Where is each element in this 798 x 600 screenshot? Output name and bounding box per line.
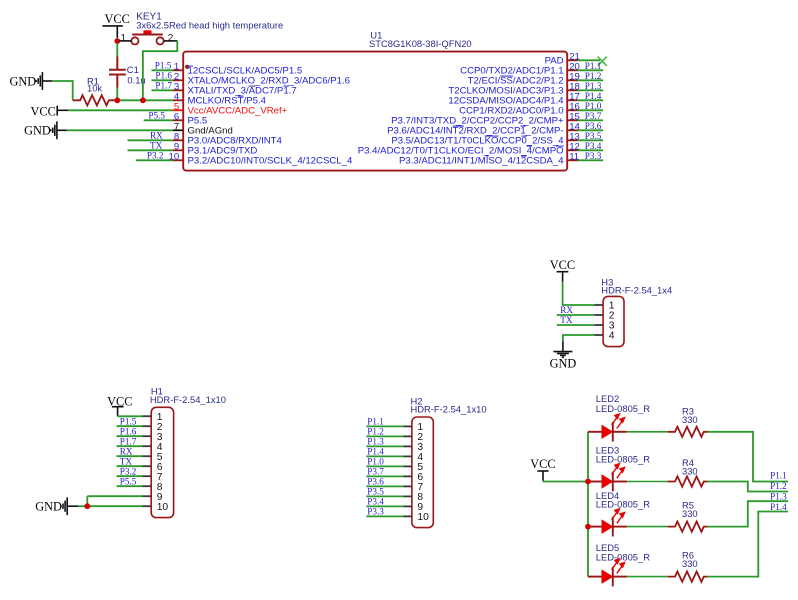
- capacitor C1: [109, 57, 126, 88]
- svg-text:P1.2: P1.2: [367, 426, 384, 436]
- wire net P1.4: [578, 99, 604, 101]
- H2 pin 3 stub: [404, 445, 412, 447]
- H3 pin 1 stub: [595, 304, 604, 306]
- wire: [627, 576, 668, 578]
- pin 14 stub: [567, 129, 577, 131]
- svg-text:4: 4: [609, 331, 615, 342]
- junction LED3: [585, 479, 591, 485]
- H3 pin 4 stub: [595, 334, 604, 336]
- svg-text:GND: GND: [35, 499, 62, 513]
- wire net P1.3: [578, 89, 604, 91]
- wire net RX: [557, 314, 595, 316]
- svg-text:TX: TX: [560, 315, 573, 325]
- pin 1 stub: [173, 69, 183, 71]
- wire net P1.1: [578, 69, 604, 71]
- svg-text:VCC: VCC: [550, 258, 575, 272]
- svg-text:P1.1: P1.1: [367, 416, 384, 426]
- svg-text:TX: TX: [150, 140, 163, 150]
- resistor R1: [73, 95, 113, 105]
- svg-text:STC8G1K08-38I-QFN20: STC8G1K08-38I-QFN20: [369, 38, 472, 49]
- svg-text:P1.3: P1.3: [367, 436, 384, 446]
- wire R1 to pin4: [117, 99, 173, 101]
- pin 7 stub: [173, 129, 183, 131]
- svg-text:LED-0805_R: LED-0805_R: [596, 552, 650, 563]
- wire net P3.7: [366, 475, 403, 477]
- svg-text:P3.3/ADC11/INT1/MISO_4/12CSDA_: P3.3/ADC11/INT1/MISO_4/12CSDA_4: [399, 156, 564, 167]
- H3 pin 2 stub: [595, 314, 604, 316]
- H1 pin 2 stub: [143, 425, 152, 427]
- wire net P1.7: [152, 89, 174, 91]
- wire: [562, 342, 564, 352]
- LED LED3: [588, 464, 627, 492]
- svg-text:P3.6: P3.6: [585, 121, 602, 131]
- ground symbol: [51, 121, 57, 139]
- wire net P3.6: [578, 129, 604, 131]
- svg-text:VCC: VCC: [530, 457, 555, 471]
- H2 pin 1 stub: [404, 425, 412, 427]
- svg-text:330: 330: [682, 558, 698, 569]
- connector H2 body: [412, 417, 433, 528]
- ground symbol (H3): [553, 352, 572, 358]
- wire net P3.5: [366, 495, 403, 497]
- svg-text:P3.3: P3.3: [367, 506, 384, 516]
- wire net P1.6: [152, 79, 174, 81]
- pin 19 stub: [567, 79, 577, 81]
- svg-text:P1.7: P1.7: [120, 436, 137, 446]
- svg-text:LED-0805_R: LED-0805_R: [596, 453, 650, 464]
- svg-text:GND: GND: [10, 75, 37, 89]
- IC U1 STC8G1K08-38I-QFN20 body: [183, 52, 567, 171]
- resistor R6: [668, 572, 708, 582]
- wire PAD: [578, 59, 601, 61]
- wire: [57, 109, 68, 111]
- wire net P3.4: [366, 505, 403, 507]
- wire KEY1 pin2: [164, 40, 178, 42]
- H2 pin 8 stub: [404, 495, 412, 497]
- svg-text:P3.4: P3.4: [585, 141, 602, 151]
- junction H1 GND: [84, 503, 90, 509]
- junction node VCC/KEY1/C1: [114, 38, 120, 44]
- wire net TX: [128, 149, 174, 151]
- wire: [116, 88, 118, 101]
- H2 pin 5 stub: [404, 465, 412, 467]
- pin 1 marker dot: [185, 65, 189, 69]
- junction LED4: [585, 524, 591, 530]
- svg-text:P1.0: P1.0: [367, 456, 384, 466]
- svg-text:P3.4: P3.4: [367, 496, 384, 506]
- svg-text:P1.4: P1.4: [770, 502, 787, 512]
- svg-text:P3.7: P3.7: [585, 111, 602, 121]
- svg-text:10k: 10k: [87, 83, 102, 94]
- svg-text:P1.1: P1.1: [770, 471, 787, 481]
- wire net P1.5: [152, 69, 174, 71]
- H2 pin 6 stub: [404, 475, 412, 477]
- pin 8 stub: [173, 139, 183, 141]
- wire R6 to P1.4: [707, 512, 788, 577]
- wire net RX: [128, 139, 174, 141]
- wire: [67, 505, 78, 507]
- svg-text:VCC: VCC: [105, 12, 130, 26]
- H2 pin 7 stub: [404, 485, 412, 487]
- wire net RX: [117, 455, 143, 457]
- H3 pin 3 stub: [595, 324, 604, 326]
- wire R3 to P1.1: [707, 432, 788, 482]
- H1 pin 7 stub: [143, 475, 152, 477]
- H1 pin 8 stub: [143, 485, 152, 487]
- pin 20 stub: [567, 69, 577, 71]
- ground symbol: [36, 72, 42, 90]
- svg-text:P1.7: P1.7: [155, 80, 172, 90]
- no-connect flag X: [598, 57, 607, 66]
- wire net TX: [557, 324, 595, 326]
- wire: [42, 80, 52, 82]
- pin 2 stub: [173, 79, 183, 81]
- LED LED4: [588, 509, 627, 537]
- resistor R5: [668, 522, 708, 532]
- svg-text:RX: RX: [120, 446, 133, 456]
- H2 pin 4 stub: [404, 455, 412, 457]
- wire net TX: [117, 465, 143, 467]
- wire net P1.4: [366, 455, 403, 457]
- wire H3 pin4 to GND: [563, 335, 595, 342]
- wire R4 to P1.2: [707, 482, 788, 492]
- resistor R4: [668, 476, 708, 486]
- svg-text:P5.5: P5.5: [120, 476, 137, 486]
- wire net P1.2: [578, 79, 604, 81]
- H2 pin 9 stub: [404, 505, 412, 507]
- wire: [86, 496, 88, 506]
- wire KEY1 pin1: [119, 40, 131, 42]
- pin 13 stub: [567, 139, 577, 141]
- svg-text:LED-0805_R: LED-0805_R: [596, 499, 650, 510]
- ground symbol: [61, 497, 67, 515]
- svg-text:P1.3: P1.3: [770, 492, 787, 502]
- wire net P1.1: [366, 425, 403, 427]
- wire: [627, 481, 668, 483]
- junction R1/C1: [114, 97, 120, 103]
- svg-text:P5.5: P5.5: [148, 110, 165, 120]
- wire GND to R1: [52, 81, 72, 100]
- pin 9 stub: [173, 149, 183, 151]
- H1 pin 10 stub: [143, 505, 152, 507]
- svg-text:P1.3: P1.3: [585, 81, 602, 91]
- svg-text:P3.2: P3.2: [120, 466, 137, 476]
- wire net P1.6: [117, 435, 143, 437]
- wire net P3.5: [578, 139, 604, 141]
- wire net P1.7: [117, 445, 143, 447]
- pin 5 stub: [173, 109, 183, 111]
- svg-text:P3.5: P3.5: [367, 486, 384, 496]
- svg-text:HDR-F-2.54_1x10: HDR-F-2.54_1x10: [411, 404, 487, 415]
- svg-text:P1.2: P1.2: [770, 481, 787, 491]
- H1 pin 6 stub: [143, 465, 152, 467]
- svg-text:P1.5: P1.5: [155, 60, 172, 70]
- svg-text:P1.4: P1.4: [585, 91, 602, 101]
- resistor R3: [668, 427, 708, 437]
- wire VCC to H1 pin1: [118, 415, 143, 417]
- svg-text:P3.3: P3.3: [585, 151, 602, 161]
- svg-text:TX: TX: [120, 456, 133, 466]
- svg-text:2: 2: [168, 33, 174, 44]
- svg-text:10: 10: [157, 502, 169, 513]
- svg-text:P1.0: P1.0: [585, 101, 602, 111]
- wire net P5.5: [117, 485, 143, 487]
- LED LED2: [588, 414, 627, 442]
- svg-text:P1.6: P1.6: [155, 70, 172, 80]
- H1 pin 1 stub: [143, 415, 152, 417]
- wire VCC to H3 pin1: [563, 282, 595, 305]
- wire net P1.0: [366, 465, 403, 467]
- svg-text:330: 330: [682, 414, 698, 425]
- svg-text:0.1u: 0.1u: [127, 74, 145, 85]
- pin 3 stub: [173, 89, 183, 91]
- wire GND to pin7: [67, 129, 174, 131]
- svg-text:RX: RX: [560, 305, 573, 315]
- pushbutton KEY1: [131, 30, 163, 44]
- svg-text:P3.2/ADC10/INT0/SCLK_4/12CSCL_: P3.2/ADC10/INT0/SCLK_4/12CSCL_4: [188, 156, 353, 167]
- wire: [627, 431, 668, 433]
- svg-text:P1.6: P1.6: [120, 426, 137, 436]
- pin 15 stub: [567, 119, 577, 121]
- pin 10 stub: [173, 159, 183, 161]
- svg-text:3x6x2.5Red head high temperatu: 3x6x2.5Red head high temperature: [136, 20, 283, 31]
- wire: [542, 480, 544, 483]
- wire net P5.5: [144, 119, 173, 121]
- pin 17 stub: [567, 99, 577, 101]
- H2 pin 10 stub: [404, 515, 412, 517]
- svg-text:RX: RX: [150, 130, 163, 140]
- wire H1 pin10 to GND: [78, 505, 142, 507]
- wire net P3.3: [366, 515, 403, 517]
- junction KEY1/RST: [140, 97, 146, 103]
- pin 12 stub: [567, 149, 577, 151]
- H1 pin 4 stub: [143, 445, 152, 447]
- wire net P3.3: [578, 159, 604, 161]
- svg-text:10: 10: [417, 512, 429, 523]
- svg-text:HDR-F-2.54_1x10: HDR-F-2.54_1x10: [150, 394, 226, 405]
- svg-text:P1.1: P1.1: [585, 61, 602, 71]
- wire: [627, 526, 668, 528]
- H2 pin 2 stub: [404, 435, 412, 437]
- pin 18 stub: [567, 89, 577, 91]
- wire net P1.2: [366, 435, 403, 437]
- wire net P1.0: [578, 109, 604, 111]
- wire VCC to pin5: [68, 109, 173, 111]
- wire net P3.6: [366, 485, 403, 487]
- svg-text:P3.7: P3.7: [367, 466, 384, 476]
- svg-text:GND: GND: [550, 357, 577, 371]
- svg-text:P3.6: P3.6: [367, 476, 384, 486]
- svg-text:VCC: VCC: [31, 105, 56, 119]
- svg-text:P1.4: P1.4: [367, 446, 384, 456]
- pin 11 stub: [567, 159, 577, 161]
- svg-text:P3.2: P3.2: [147, 150, 164, 160]
- H1 pin 5 stub: [143, 455, 152, 457]
- pin 4 stub: [173, 99, 183, 101]
- connector H3 body: [603, 296, 624, 346]
- svg-text:330: 330: [682, 465, 698, 476]
- pin 6 stub: [173, 119, 183, 121]
- H1 pin 3 stub: [143, 435, 152, 437]
- wire net P3.4: [578, 149, 604, 151]
- H1 pin 9 stub: [143, 495, 152, 497]
- svg-text:330: 330: [682, 508, 698, 519]
- wire net P3.7: [578, 119, 604, 121]
- wire net P1.5: [117, 425, 143, 427]
- wire net P3.2: [117, 475, 143, 477]
- wire LED anode bus: [587, 432, 589, 577]
- svg-text:P1.5: P1.5: [120, 416, 137, 426]
- wire R5 to P1.3: [707, 501, 788, 526]
- wire VCC to LED bus: [543, 481, 588, 483]
- wire net P3.2: [136, 159, 173, 161]
- wire net P1.3: [366, 445, 403, 447]
- svg-text:1: 1: [120, 33, 126, 44]
- pin 21 stub: [567, 59, 577, 61]
- svg-text:GND: GND: [24, 124, 51, 138]
- pin 16 stub: [567, 109, 577, 111]
- svg-text:P3.5: P3.5: [585, 131, 602, 141]
- wire: [116, 43, 118, 57]
- wire: [116, 38, 118, 42]
- svg-text:P1.2: P1.2: [585, 71, 602, 81]
- wire KEY1 pin2 to RST node: [143, 41, 177, 100]
- wire H1 pin9: [87, 495, 142, 497]
- svg-text:HDR-F-2.54_1x4: HDR-F-2.54_1x4: [601, 285, 672, 296]
- svg-text:LED-0805_R: LED-0805_R: [596, 403, 650, 414]
- wire: [57, 129, 67, 131]
- wire: [112, 99, 117, 101]
- LED LED5: [588, 559, 627, 587]
- connector H1 body: [151, 407, 173, 517]
